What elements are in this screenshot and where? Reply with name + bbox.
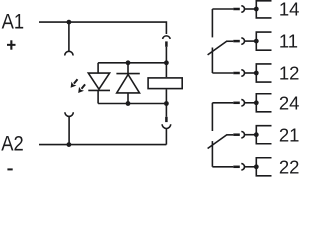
svg-text:22: 22: [279, 156, 300, 177]
svg-text:11: 11: [279, 31, 298, 52]
svg-text:12: 12: [279, 63, 300, 84]
svg-text:14: 14: [279, 0, 300, 20]
svg-text:A2: A2: [1, 132, 23, 155]
svg-text:21: 21: [279, 124, 300, 145]
svg-text:24: 24: [279, 92, 300, 113]
svg-text:A1: A1: [2, 10, 24, 33]
